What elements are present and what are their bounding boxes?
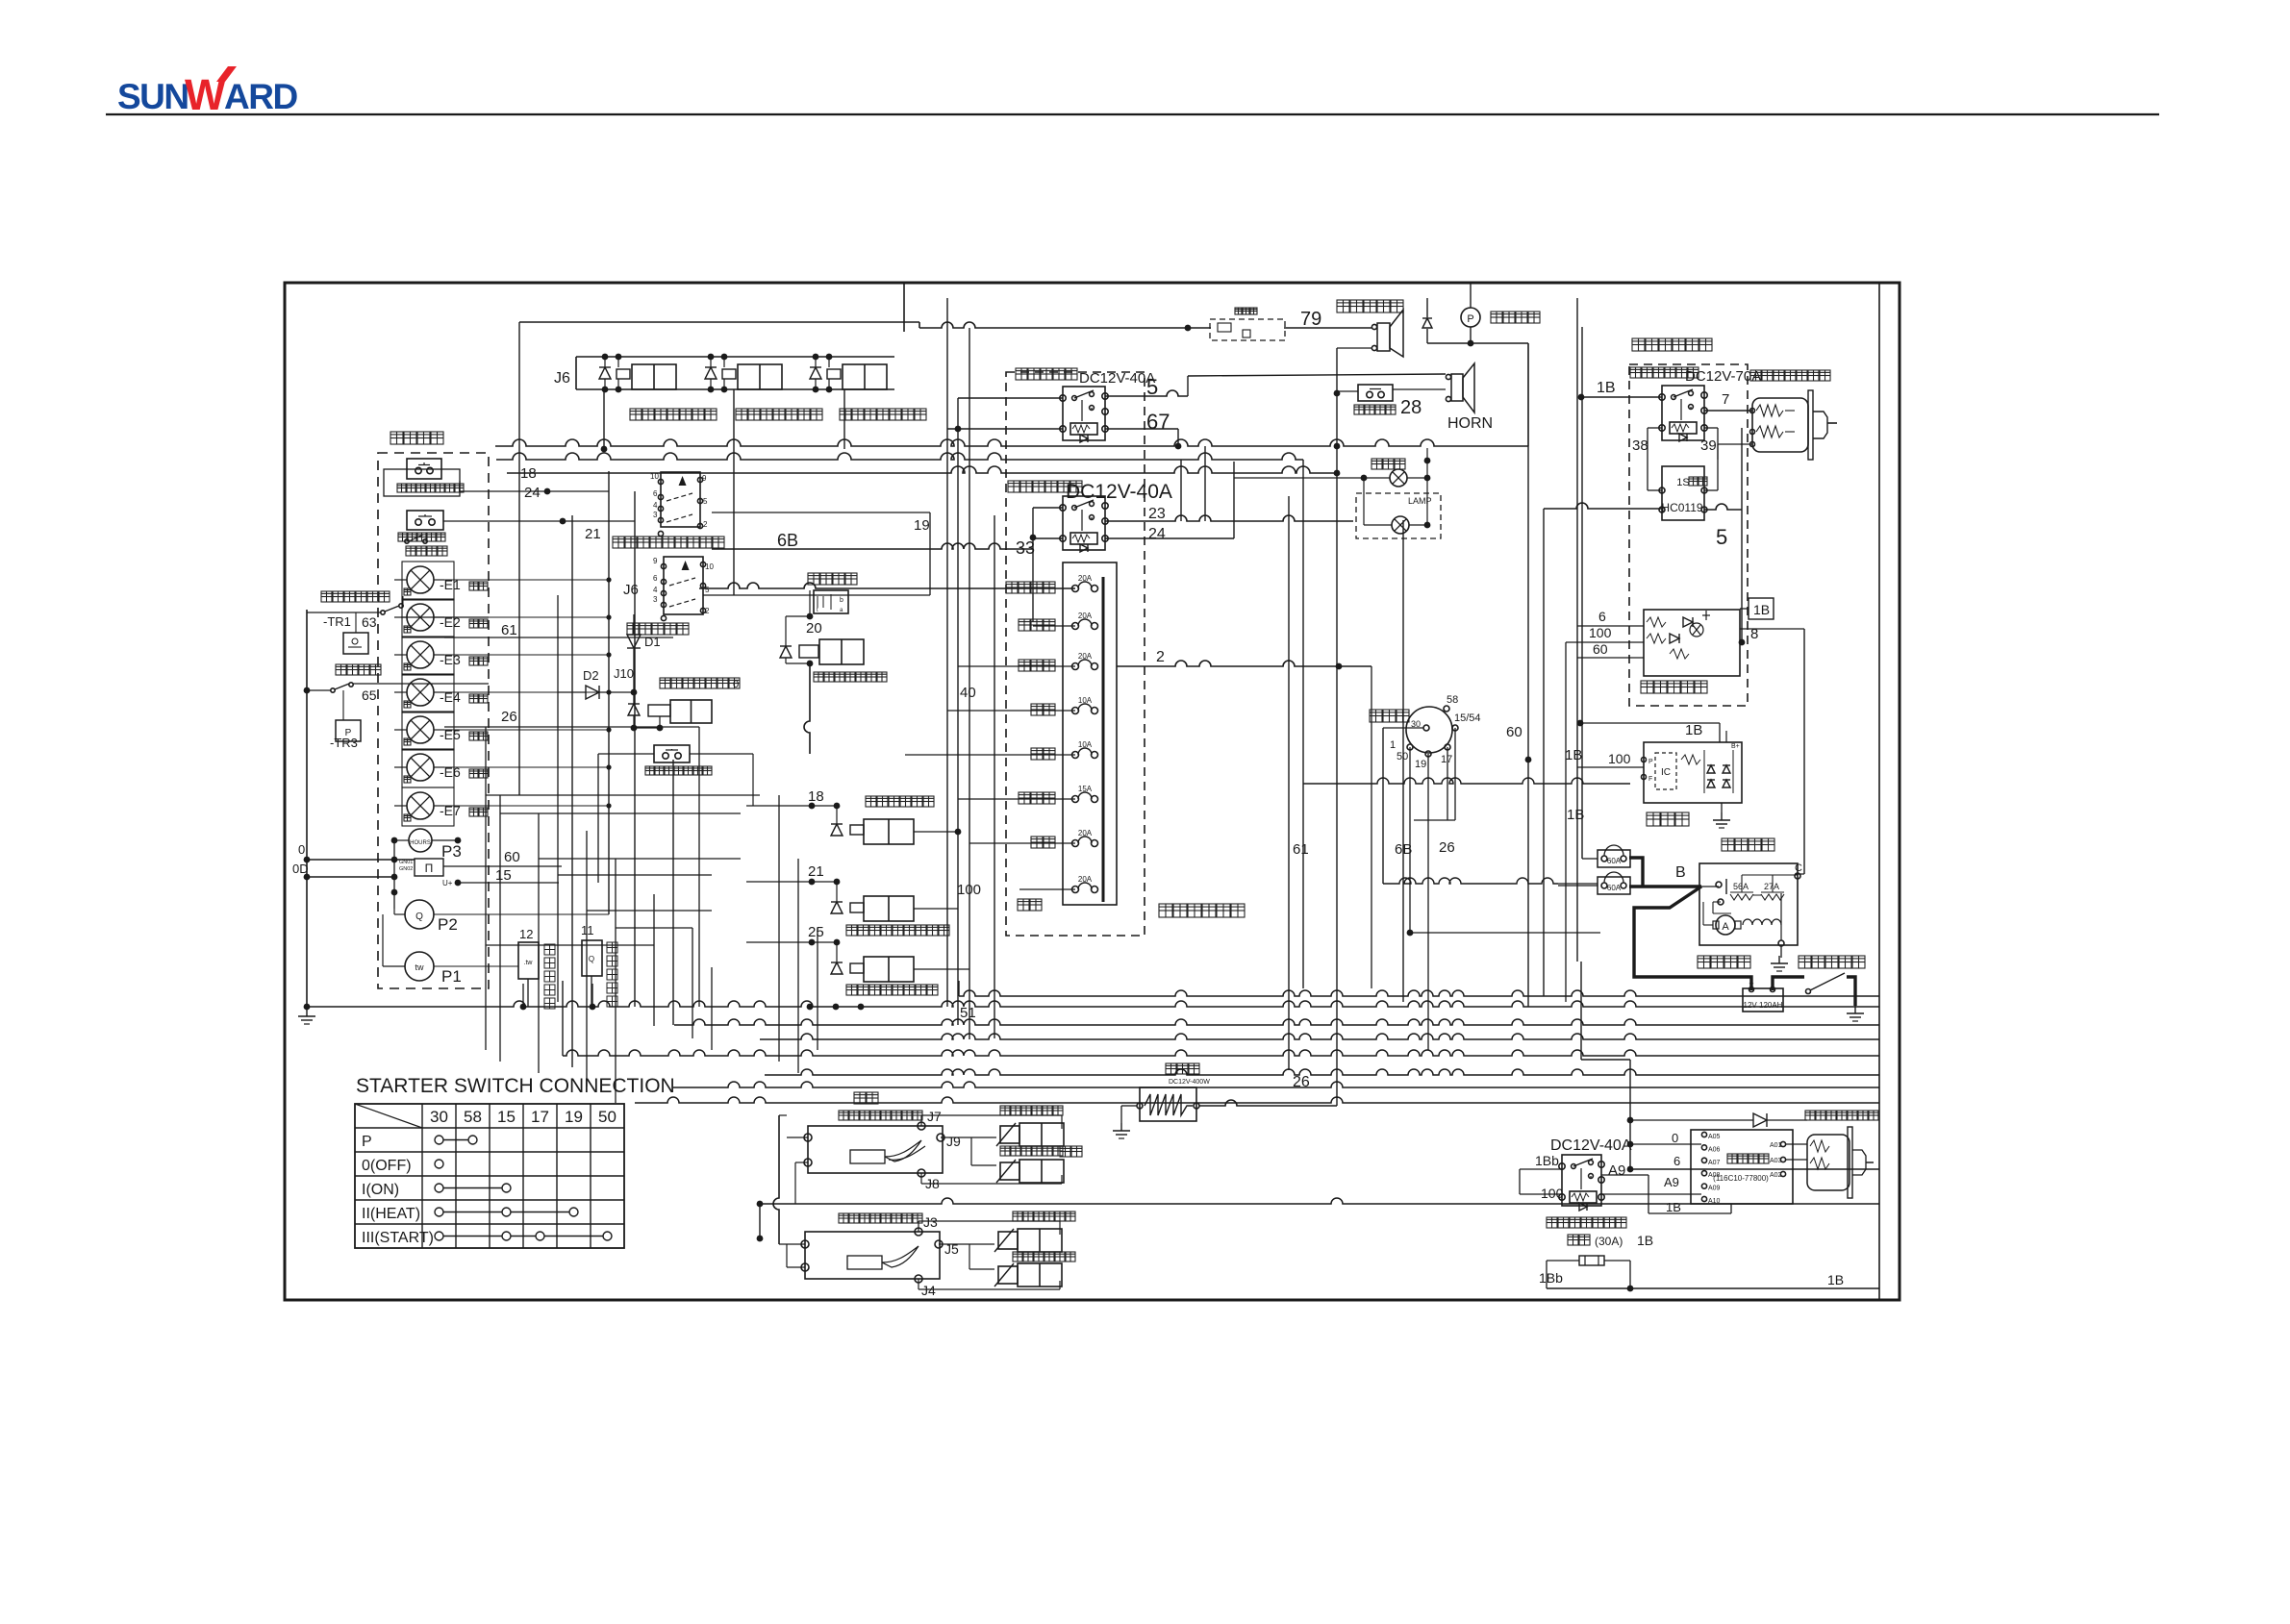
60A wires [1582,858,1598,860]
svg-text:27A: 27A [1764,882,1779,891]
svg-text:1B: 1B [1827,1272,1844,1287]
starter contact [1716,882,1722,887]
left wire vertical [306,610,308,1007]
svg-text:ARD: ARD [224,77,297,116]
engine ctrl box label [1632,338,1645,351]
svg-text:HOURS: HOURS [410,840,431,846]
deflect prop solenoid [998,1266,1018,1284]
svg-text:II(HEAT): II(HEAT) [362,1206,420,1222]
vertical 540 [518,322,520,795]
svg-text:A05: A05 [1708,1134,1721,1140]
svg-text:12: 12 [519,927,533,941]
flameout relay [1063,387,1105,440]
svg-text:65: 65 [362,687,377,703]
svg-text:5: 5 [703,497,708,506]
plateau solenoid [1807,1135,1850,1190]
handle2 pins [915,1228,922,1236]
svg-text:60A: 60A [1607,884,1622,892]
P1 gauge [405,952,434,981]
svg-text:0: 0 [1672,1131,1678,1145]
svg-text:DC12V-40A: DC12V-40A [1066,481,1172,503]
fuse lowvalve 20A [1072,586,1079,592]
dozer solenoid valve [746,881,837,883]
svg-text:P2: P2 [438,915,458,934]
TR3 wires [342,690,344,720]
battery ground [1854,1006,1856,1013]
time relay dashed box [1210,319,1285,340]
starter label top [1722,838,1734,851]
LAMP dashed box [1356,493,1441,538]
svg-text:GN02: GN02 [399,866,413,872]
boom lamp wires [1234,477,1390,479]
handle2 label [839,1213,848,1223]
svg-text:2: 2 [1156,649,1165,665]
prop solenoid 4 [1000,1126,1019,1143]
plateau bottom wires [1547,1260,1579,1262]
ground sym top [1426,298,1428,317]
svg-text:b: b [840,597,843,604]
starter B wire [1701,886,1719,887]
alternator label [1647,812,1660,826]
svg-text:4: 4 [653,501,658,510]
svg-text:100: 100 [1589,625,1612,640]
svg-text:18: 18 [808,788,824,805]
svg-text:61: 61 [1293,841,1309,858]
safety relay label [1641,681,1653,693]
svg-text:A07: A07 [1708,1160,1721,1166]
quick-lock switch label [627,623,639,635]
valve3 label [840,409,851,420]
svg-text:21: 21 [808,863,824,880]
svg-text:(116C10-77800): (116C10-77800) [1713,1174,1769,1183]
deflect prop solenoid label [1013,1252,1022,1262]
19 wire loop [712,512,930,513]
bundle trunk 3 [760,1034,1879,1039]
svg-text:19: 19 [1415,759,1426,770]
vertical right 1253 [1204,446,1206,521]
bundle trunk 0 [308,1001,1879,1007]
weave verticals [485,727,487,1050]
module right pins [1780,1141,1785,1146]
vertical 1008 [969,328,970,1039]
valve bank left wire [575,357,577,389]
svg-text:25: 25 [808,924,824,940]
heater [1140,1087,1196,1121]
svg-text:A: A [1722,921,1729,933]
fuse meter 10A [1072,752,1079,759]
wire 0 [307,859,415,861]
rotate prop solenoid label [1013,1212,1022,1221]
fuel control solenoid [1752,398,1808,452]
vertical 1589 low [1527,446,1529,1007]
horn button [1358,385,1393,401]
GN01 box [415,859,443,876]
air filter switch [331,688,335,692]
dozer switch [661,472,700,527]
svg-text:23: 23 [1148,506,1166,522]
panel wire 24 [443,520,635,522]
svg-text:60: 60 [1506,724,1522,740]
safety relay wires [1577,625,1644,627]
alternator IC [1655,753,1676,789]
quick-change solenoid valve 2 [705,367,717,379]
svg-text:A03: A03 [1770,1158,1782,1164]
air filter switch label [336,664,346,675]
svg-text:6: 6 [653,574,658,583]
trunk 478 [496,453,1303,460]
svg-text:A9: A9 [1608,1162,1625,1179]
svg-text:3: 3 [653,595,658,604]
partition line center-top [903,283,905,332]
fuse start label [1018,899,1029,911]
starter ground [1780,946,1782,958]
bundle corner 585 [562,981,564,1056]
heater label [1166,1063,1176,1074]
svg-text:5: 5 [705,586,710,594]
bundle trunk 4 [563,1050,1879,1056]
svg-text:10A: 10A [1078,740,1093,749]
flameout ctrl switch [405,539,409,543]
lamp bus vertical 1 [608,471,610,914]
electronic oil pump [1461,308,1480,327]
svg-text:20A: 20A [1078,829,1093,837]
svg-text:38: 38 [1632,437,1648,454]
svg-text:DC12V-70A: DC12V-70A [1685,368,1761,385]
trunk 492 [507,466,1337,473]
wire 970 [1410,932,1600,934]
svg-text:HORN: HORN [1447,415,1493,432]
svg-text:SUN: SUN [117,77,189,116]
vertical right 1640 [1576,298,1578,962]
plateau relay [1562,1155,1601,1206]
bundle trunk lower1 [673,1082,1879,1087]
svg-text:100: 100 [1608,751,1631,766]
svg-text:1B: 1B [1753,602,1770,617]
panel wire 26 [444,726,699,728]
rotate prop solenoid [998,1232,1018,1249]
worklight relay wires [1033,507,1063,509]
fuse oilpump 10A [1072,708,1079,714]
svg-text:60: 60 [504,849,520,865]
starter motor A [1716,915,1735,935]
left handle button [654,745,690,762]
svg-text:1Bb: 1Bb [1535,1153,1559,1168]
svg-text:J3: J3 [923,1214,938,1230]
starter label bottom [1698,956,1710,968]
flameout ctrl label [406,546,415,556]
header rule [106,113,2159,115]
fuel solenoid wire2 [1718,443,1752,445]
indicator lamp -E2 [407,604,434,631]
vertical 878 [843,389,845,449]
indicator lamp -E3 [407,641,434,668]
svg-text:1B: 1B [1597,380,1616,396]
svg-text:17: 17 [531,1108,549,1126]
module bottom wire [1648,1175,1649,1213]
engine box vertical right [1741,428,1743,642]
handle1 inner [850,1150,885,1163]
svg-text:III(START): III(START) [362,1230,434,1246]
svg-text:15: 15 [497,1108,516,1126]
valve2 label [736,409,747,420]
svg-text:A9: A9 [1664,1175,1679,1189]
valve rail top [576,356,894,358]
svg-text:P: P [1648,759,1653,765]
svg-text:6: 6 [653,489,658,498]
monitor panel dashed box [378,453,489,988]
module wires right [1786,1143,1807,1145]
ignition switch [1406,707,1452,753]
plateau relay name [1547,1217,1557,1228]
30A fuse cartridge [1579,1256,1604,1265]
svg-text:67: 67 [1146,410,1170,434]
wire 571 [712,543,1033,549]
travel buzzer [1377,323,1390,351]
svg-text:50: 50 [598,1108,617,1126]
prop solenoid 3 [1000,1162,1019,1180]
svg-text:20A: 20A [1078,652,1093,661]
indicator lamp -E7 [407,792,434,819]
svg-text:40: 40 [960,685,976,701]
fuse spare 20A [1072,840,1079,847]
svg-text:9: 9 [653,557,658,565]
diode D1 [627,635,641,648]
svg-text:F: F [1648,776,1652,783]
svg-text:J7: J7 [927,1109,942,1124]
fuel relay wire right [1704,410,1752,412]
svg-text:24: 24 [524,485,541,501]
svg-text:+: + [1749,979,1753,988]
svg-text:P1: P1 [441,967,462,986]
svg-text:(30A): (30A) [1595,1235,1623,1248]
svg-text:6: 6 [1673,1154,1680,1168]
vertical right 1459b [1402,520,1404,1002]
heater wire right [1199,1100,1337,1106]
svg-text:I(ON): I(ON) [362,1182,399,1198]
flameout relay wires [958,397,1063,399]
handle1 label [839,1111,848,1120]
svg-text:10: 10 [705,562,714,571]
flameout relay label [1016,368,1027,380]
quick-lock solenoid 0 [660,678,670,688]
high speed travel solenoid [866,796,876,807]
fuse box rect [1063,562,1117,905]
vertical 595 [571,515,573,1067]
safety switch label [808,573,819,585]
quick-change solenoid valve 1 [599,367,611,379]
svg-text:7: 7 [1722,391,1729,408]
svg-text:B: B [1675,864,1686,881]
bundle sensor dots [520,1004,527,1011]
pilot cutoff label [814,672,823,682]
svg-text:10A: 10A [1078,696,1093,705]
handle1 wires [920,1115,922,1126]
indicator lamp -E6 [407,754,434,781]
trunk top [519,321,919,323]
oil pressure switch [381,611,385,614]
svg-text:J6: J6 [554,370,570,387]
svg-text:33: 33 [1016,538,1035,558]
ignition 30 wire [1382,728,1384,884]
svg-text:58: 58 [464,1108,482,1126]
lamp bus vertical 2 [634,491,636,1007]
svg-text:A01: A01 [1770,1142,1782,1149]
horn speaker [1451,374,1463,401]
svg-text:24: 24 [1148,526,1166,542]
module diode [1753,1113,1767,1127]
svg-text:1B: 1B [1666,1200,1681,1214]
handle2 inner [847,1256,882,1269]
safety relay inner box [1644,610,1740,676]
vertical 996 [957,398,959,1025]
svg-text:P3: P3 [441,842,462,861]
svg-text:2: 2 [703,520,708,529]
svg-text:P: P [1467,313,1473,325]
vertical 1034 [994,515,995,1038]
handle1 remote label [854,1092,866,1104]
svg-text:GN01: GN01 [399,860,413,865]
quick-change solenoid valve 3 [810,367,821,379]
svg-text:C: C [1795,862,1802,874]
fuse horn 20A [1072,663,1079,670]
safety relay out [1740,608,1749,610]
60A fuse 2 [1598,877,1630,894]
handle feed vertical [759,1204,761,1238]
bundle trunk lower2 [635,1097,1879,1103]
timer wire [1544,503,1662,509]
battery thick wires [1629,858,1643,887]
main border [285,283,1900,1300]
handle1 pins [804,1134,812,1141]
P2 gauge [405,900,434,929]
worklight relay [1063,496,1105,550]
svg-text:STARTER SWITCH CONNECTION: STARTER SWITCH CONNECTION [356,1075,675,1097]
svg-text:39: 39 [1700,437,1717,454]
TR3 box [336,720,361,741]
svg-text:1B: 1B [1637,1233,1653,1248]
plateau relay wires [1520,1168,1562,1170]
hours meter [409,829,432,852]
svg-text:60: 60 [1593,641,1608,657]
svg-text:D1: D1 [644,635,661,649]
trunk 464 [495,439,1528,446]
indicator lamp -E4 [407,679,434,706]
svg-text:21: 21 [585,526,601,542]
svg-text:12V 120AH: 12V 120AH [1744,1001,1783,1010]
boom lamp [1390,469,1407,487]
1S timer box [1662,466,1704,520]
svg-text:6B: 6B [777,531,798,550]
1B node box [1749,598,1774,619]
svg-text:26: 26 [1439,839,1455,856]
svg-text:30: 30 [430,1108,448,1126]
ground left [306,1009,308,1016]
panel wire 18 [459,481,461,491]
fuel solenoid label [1750,370,1761,381]
svg-text:19: 19 [914,517,930,534]
oil pressure switch label [321,591,332,602]
svg-text:0: 0 [298,842,305,857]
svg-text:3: 3 [653,511,658,519]
fuel relay label [1630,367,1641,378]
dozer switch label [613,537,624,548]
svg-text:26: 26 [501,709,517,725]
svg-text:15/54: 15/54 [1454,712,1481,724]
partition line right [1878,283,1880,1300]
prop solenoid 3 label [1000,1146,1010,1156]
lamp bus vertical 3 [672,760,674,1025]
alternator box [1644,742,1742,803]
svg-text:HC0119: HC0119 [1661,501,1702,514]
svg-text:19: 19 [565,1108,583,1126]
master switch [1810,973,1845,990]
fuse feeds [699,583,1075,588]
safety switch box [814,590,848,613]
svg-text:DC12V-40A: DC12V-40A [1550,1137,1632,1154]
wire 15 [458,882,559,884]
indicator lamp -E5 [407,716,434,743]
worklight relay label [1008,481,1019,492]
svg-text:B+: B+ [1731,743,1740,750]
starter box [1699,863,1798,945]
ignition term wires [1409,747,1411,933]
valve rail bottom [576,388,894,390]
svg-text:D2: D2 [583,668,599,683]
battery box [1743,988,1783,1012]
wire 0D [307,876,394,878]
svg-text:.tw: .tw [524,960,534,966]
bundle trunk 2 [674,1019,1879,1025]
alternator ground [1721,803,1723,812]
vertical right 1340 [1288,496,1290,1070]
svg-text:60A: 60A [1607,857,1622,865]
travel buzzer label [1337,300,1349,312]
bundle corner 997 [958,981,960,996]
svg-text:-TR1: -TR1 [323,614,351,629]
module label [1727,1154,1737,1163]
remote label right [1060,1146,1070,1157]
handle2 wires [918,1221,919,1232]
svg-text:Q: Q [589,955,594,963]
safety sw wires [809,590,811,616]
heater ground [1121,1105,1137,1107]
svg-text:1S: 1S [1676,477,1689,488]
handle1 box [808,1126,943,1173]
plateau feed [1580,962,1582,1060]
panel left vertical [393,840,395,909]
svg-text:100: 100 [1541,1186,1564,1201]
svg-text:U+: U+ [442,879,453,887]
vertical 763 [733,389,735,595]
fuel valve relay [1662,386,1704,440]
quick-lock switch [664,557,703,614]
relay fuse dashed box [1006,372,1145,936]
svg-text:0: 0 [733,679,739,690]
svg-text:17: 17 [1441,754,1452,765]
svg-text:20: 20 [806,620,822,637]
svg-text:4: 4 [653,586,658,594]
prop solenoid 4 label [1000,1106,1010,1115]
alternator pins [1642,758,1647,762]
svg-text:20A: 20A [1078,612,1093,620]
fuel relay wire left [1581,396,1662,398]
svg-text:58: 58 [1447,694,1458,706]
bundle trunk 5 [765,1069,1879,1075]
svg-text:5: 5 [1716,525,1727,549]
fuse alternator 15A [1072,796,1079,803]
svg-text:IC: IC [1661,767,1671,778]
monitor panel label [390,432,403,444]
